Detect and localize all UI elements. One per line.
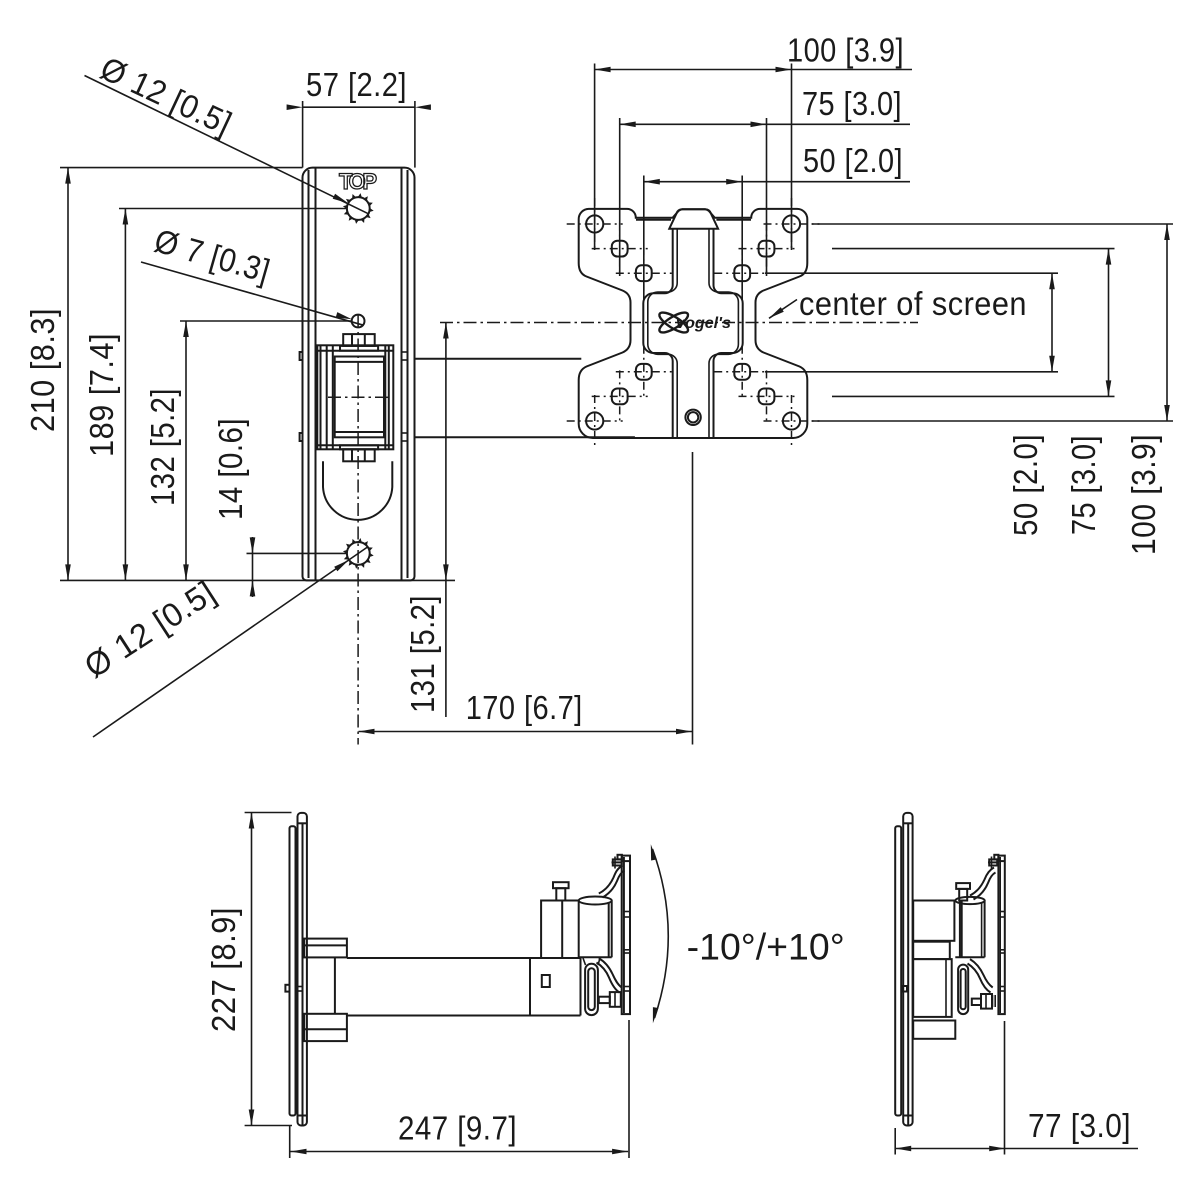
arm bottom edge [415,436,635,438]
cross cutout inner rolled edge [648,229,677,438]
svg-text:210 [8.3]: 210 [8.3] [24,308,61,432]
center of screen centerline [440,322,918,324]
svg-text:189 [7.4]: 189 [7.4] [83,333,120,457]
svg-text:-10°/+10°: -10°/+10° [687,927,845,968]
svg-text:Ø 12 [0.5]: Ø 12 [0.5] [95,49,238,142]
svg-text:Ø 12 [0.5]: Ø 12 [0.5] [78,573,222,685]
clamp upper flange [304,939,347,958]
clamp flange top [913,901,954,941]
hook notch [902,986,908,992]
lower strap [970,959,993,987]
hinge housing [317,345,393,449]
VESA mounting holes [567,198,820,447]
pivot block [541,901,579,959]
VESA centerline below [692,452,694,745]
adjustment screw [599,997,610,1003]
knurled hole bottom [347,542,370,565]
hole at 620,396 [612,389,628,405]
vogels logo [657,309,731,336]
top hook screw [988,861,998,863]
view: VESA plate front [579,209,808,438]
wall plate side bar thin [895,826,901,1115]
svg-text:132 [5.2]: 132 [5.2] [144,388,181,506]
pivot cylinder [955,897,984,904]
adjustment screw [972,999,981,1005]
upper strap [599,866,623,894]
bolt head on block [553,882,569,888]
svg-text:170 [6.7]: 170 [6.7] [466,689,583,726]
hole at 595,421 [586,412,603,429]
clamp flange bottom [913,1021,955,1039]
tilt lever [958,965,968,1015]
svg-text:57 [2.2]: 57 [2.2] [306,66,407,103]
svg-text:50 [2.0]: 50 [2.0] [1007,434,1044,536]
arm side [347,957,581,959]
top hook screw [612,861,622,863]
hole at 644,273 [636,265,652,281]
hole at 766,249 [759,241,775,257]
svg-text:227 [8.9]: 227 [8.9] [205,907,242,1032]
knurled hole top [347,197,370,220]
svg-text:75 [3.0]: 75 [3.0] [802,85,902,122]
clamp lower flange [304,1014,347,1041]
svg-text:TOP: TOP [339,169,377,194]
upper strap [970,868,994,896]
hinge cylinder [335,357,384,438]
svg-text:100 [3.9]: 100 [3.9] [1125,434,1162,555]
svg-text:Ø 7 [0.3]: Ø 7 [0.3] [151,222,275,290]
wall plate side bar main [903,813,912,1126]
VESA plate edge bar [998,856,1004,1015]
tilt lever [585,964,598,1015]
plate right rail lines [401,168,403,581]
arm end-on [913,959,952,1017]
clamp web [334,957,336,1013]
svg-text:50 [2.0]: 50 [2.0] [803,142,903,179]
svg-text:14 [0.6]: 14 [0.6] [212,418,249,520]
svg-text:vogel's: vogel's [676,315,731,332]
wall plate side bar thin [290,826,296,1115]
view: wall plate front [300,168,635,745]
wall plate outline [303,168,415,581]
svg-text:75 [3.0]: 75 [3.0] [1065,435,1102,535]
lower strap [599,958,622,987]
hole at 792,224 [783,215,800,232]
bolt head [956,883,970,889]
svg-text:center of screen: center of screen [799,285,1027,322]
hole at 742,372 [734,364,750,380]
VESA plate edge bar [622,856,630,1015]
plate left rail lines [308,170,310,578]
svg-text:131 [5.2]: 131 [5.2] [404,595,441,713]
pivot cylinder [579,897,612,905]
svg-text:100 [3.9]: 100 [3.9] [787,32,904,69]
arm joint line [529,958,531,1016]
hole at 620,249 [612,241,628,257]
hole at 792,421 [783,412,800,429]
hole at 644,372 [636,364,652,380]
wall plate side bar main [298,813,307,1126]
arm top edge [415,358,582,360]
view: side extended [285,813,844,1126]
bottom center hole [685,410,700,425]
hole at 766,396 [759,389,775,405]
top tab [669,209,718,228]
right extension lines [812,223,1173,225]
tilt arc arrow [653,849,669,1018]
hinge nut bottom [340,445,378,449]
cross cutout outer [643,229,672,438]
plate top edge second line [636,219,671,221]
strap hook notch [285,985,289,992]
clamp step [913,942,950,959]
hinge nut top [343,334,375,346]
swing U profile [323,461,392,520]
plate edge notches [300,352,303,360]
svg-text:77 [3.0]: 77 [3.0] [1028,1107,1131,1144]
hole at 742,273 [734,265,750,281]
VESA plate outline [579,209,808,438]
view: side folded [895,813,1005,1126]
hole D7 [352,315,365,328]
hinge centerline vertical [357,315,359,745]
hinge axis centerline horizontal [328,396,391,398]
hole at 595,224 [586,215,603,232]
svg-text:247 [9.7]: 247 [9.7] [398,1110,517,1147]
